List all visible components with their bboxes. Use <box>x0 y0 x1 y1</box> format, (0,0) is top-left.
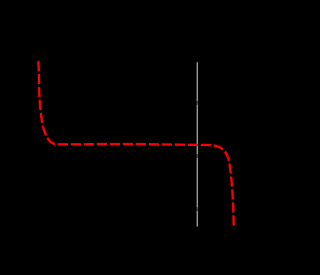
function curve (red dashed) <box>38 61 233 226</box>
vertical reference line (gray dash-dot) <box>196 62 198 226</box>
